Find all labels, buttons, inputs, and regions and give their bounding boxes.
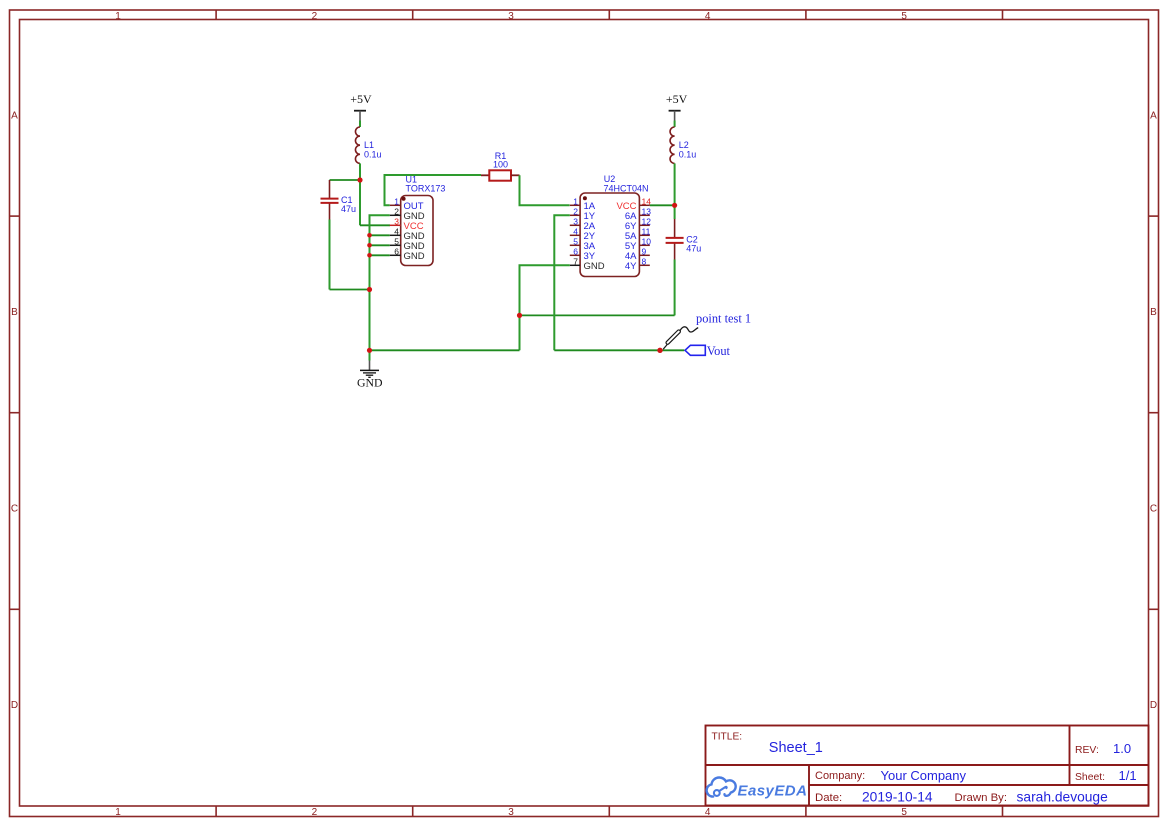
svg-text:Sheet_1: Sheet_1 xyxy=(769,740,823,756)
svg-text:4: 4 xyxy=(573,227,578,237)
svg-text:1: 1 xyxy=(115,11,121,22)
svg-text:0.1u: 0.1u xyxy=(679,150,697,160)
svg-text:5: 5 xyxy=(573,237,578,247)
svg-text:6: 6 xyxy=(394,247,399,257)
svg-text:L2: L2 xyxy=(679,140,689,150)
svg-text:Date:: Date: xyxy=(815,792,842,804)
U1 pin 2 xyxy=(390,207,401,217)
U2 pin 4 xyxy=(570,227,580,237)
svg-text:TITLE:: TITLE: xyxy=(712,732,743,743)
frame row letters left xyxy=(11,111,18,712)
junction node U1 pin6 xyxy=(367,253,372,258)
svg-text:14: 14 xyxy=(642,197,652,207)
svg-text:4Y: 4Y xyxy=(625,261,637,272)
wire U2 pin7 down xyxy=(520,265,570,350)
svg-text:C: C xyxy=(1150,504,1157,515)
net flag Vout xyxy=(685,344,731,358)
svg-text:2: 2 xyxy=(312,11,318,22)
svg-text:8: 8 xyxy=(642,257,647,267)
svg-text:Company:: Company: xyxy=(815,770,865,782)
svg-text:11: 11 xyxy=(642,227,651,237)
svg-text:Your Company: Your Company xyxy=(881,768,967,783)
svg-text:4: 4 xyxy=(705,807,711,818)
wire xyxy=(674,205,676,219)
IC U2 74HCT04N xyxy=(580,193,639,277)
U2 pin 8 xyxy=(639,257,649,267)
svg-text:GND: GND xyxy=(584,261,605,272)
test point probe symbol xyxy=(663,327,698,349)
svg-text:2: 2 xyxy=(573,207,578,217)
U2 pin 13 xyxy=(639,207,651,217)
svg-text:2: 2 xyxy=(312,807,318,818)
frame column numbers top xyxy=(115,11,907,22)
U1 pin 4 xyxy=(390,227,401,237)
U2 pin 9 xyxy=(639,247,649,257)
svg-text:5: 5 xyxy=(901,807,907,818)
U1 pin 6 xyxy=(390,247,401,257)
svg-text:3: 3 xyxy=(508,807,514,818)
svg-text:EasyEDA: EasyEDA xyxy=(738,783,808,800)
svg-text:Vout: Vout xyxy=(707,344,731,358)
svg-text:sarah.devouge: sarah.devouge xyxy=(1017,790,1109,805)
junction node GND rail at ground xyxy=(367,348,372,353)
wire xyxy=(329,220,331,290)
power flag +5V left xyxy=(350,92,372,121)
svg-text:4: 4 xyxy=(394,227,399,237)
junction node C1/GND rail xyxy=(367,287,372,292)
U2 pin 12 xyxy=(639,217,651,227)
svg-text:REV:: REV: xyxy=(1075,745,1099,756)
wire U1 pin2 to GND rail xyxy=(370,215,390,350)
svg-text:13: 13 xyxy=(642,207,652,217)
svg-text:Sheet:: Sheet: xyxy=(1075,772,1105,783)
junction node test point on Vout xyxy=(657,348,662,353)
U2 pin 2 xyxy=(570,207,580,217)
svg-text:5: 5 xyxy=(394,237,399,247)
U2 pin 5 xyxy=(570,237,580,247)
svg-text:Drawn By:: Drawn By: xyxy=(955,792,1008,804)
svg-text:0.1u: 0.1u xyxy=(364,150,382,160)
svg-text:GND: GND xyxy=(404,251,425,262)
junction node +5V/C2/pin14 xyxy=(672,203,677,208)
wire xyxy=(330,179,361,181)
svg-text:D: D xyxy=(1150,700,1157,711)
U2 pin 10 xyxy=(639,237,651,247)
junction node +5V/C1/VCC xyxy=(357,177,362,182)
svg-text:12: 12 xyxy=(642,217,652,227)
svg-text:1: 1 xyxy=(115,807,121,818)
svg-text:C: C xyxy=(11,504,18,515)
ground symbol GND xyxy=(357,350,383,389)
wire U2 pin2 to Vout rail xyxy=(554,215,570,350)
svg-text:10: 10 xyxy=(642,237,652,247)
frame column numbers bottom xyxy=(115,807,907,818)
svg-text:D: D xyxy=(11,700,18,711)
junction node U1 pin5 xyxy=(367,243,372,248)
U2 pin 7 xyxy=(570,257,580,267)
frame row letters right xyxy=(1150,111,1157,712)
svg-text:+5V: +5V xyxy=(350,92,372,106)
svg-text:TORX173: TORX173 xyxy=(406,183,446,193)
capacitor C2 xyxy=(666,219,684,260)
inductor L1 xyxy=(355,127,360,163)
wire U2 pin14 to +5V rail xyxy=(650,204,675,206)
wire R1 to U2 pin1 xyxy=(520,175,570,205)
wire xyxy=(330,289,370,291)
svg-text:74HCT04N: 74HCT04N xyxy=(604,183,649,193)
svg-text:3: 3 xyxy=(508,11,514,22)
resistor R1 xyxy=(481,170,520,180)
U2 pin 6 xyxy=(570,247,580,257)
wire xyxy=(674,121,676,128)
svg-text:7: 7 xyxy=(573,257,578,267)
svg-text:9: 9 xyxy=(642,247,647,257)
svg-text:3: 3 xyxy=(394,217,399,227)
svg-text:100: 100 xyxy=(493,159,508,169)
wire xyxy=(674,260,676,316)
svg-text:47u: 47u xyxy=(341,204,356,214)
wire U1 pin6 stub xyxy=(370,254,390,256)
power flag +5V right xyxy=(666,92,688,121)
svg-text:47u: 47u xyxy=(686,244,701,254)
svg-text:1: 1 xyxy=(394,197,399,207)
wire Vout horizontal xyxy=(554,349,684,351)
svg-text:1.0: 1.0 xyxy=(1113,741,1131,756)
wire C2 to pin7 net xyxy=(520,314,675,316)
svg-text:GND: GND xyxy=(357,376,383,390)
svg-text:B: B xyxy=(1150,307,1157,318)
wire U1 pin5 stub xyxy=(370,244,390,246)
wire xyxy=(360,224,390,226)
U2 pin 1 xyxy=(570,197,580,207)
svg-text:2019-10-14: 2019-10-14 xyxy=(862,790,933,805)
EasyEDA logo xyxy=(707,778,808,800)
capacitor C1 xyxy=(321,180,339,220)
wire U1 pin4 stub xyxy=(370,234,390,236)
svg-text:A: A xyxy=(11,111,18,122)
wire xyxy=(359,121,361,128)
wire xyxy=(674,163,676,205)
svg-text:5: 5 xyxy=(901,11,907,22)
wire VCC branch down to U1 pin3 xyxy=(359,180,361,225)
svg-text:4: 4 xyxy=(705,11,711,22)
svg-text:+5V: +5V xyxy=(666,92,688,106)
U1 pin 3 xyxy=(390,217,401,227)
svg-text:L1: L1 xyxy=(364,140,374,150)
title block xyxy=(706,726,1149,806)
svg-text:1/1: 1/1 xyxy=(1119,768,1137,783)
svg-text:1: 1 xyxy=(573,197,578,207)
wire GND rail horizontal xyxy=(370,349,520,351)
IC U1 TORX173 xyxy=(401,196,433,266)
svg-text:2: 2 xyxy=(394,207,399,217)
wire xyxy=(359,163,361,180)
svg-text:6: 6 xyxy=(573,247,578,257)
svg-text:A: A xyxy=(1150,111,1157,122)
U1 pin 1 xyxy=(390,197,401,207)
svg-text:B: B xyxy=(11,307,18,318)
junction node U1 pin4 xyxy=(367,233,372,238)
wire U1 pin1 to R1 xyxy=(385,175,482,205)
U2 pin 11 xyxy=(639,227,650,237)
svg-text:point test 1: point test 1 xyxy=(696,311,751,325)
inductor L2 xyxy=(670,127,675,163)
svg-text:3: 3 xyxy=(573,217,578,227)
U2 pin 14 xyxy=(639,197,651,207)
U1 pin 5 xyxy=(390,237,401,247)
U2 pin 3 xyxy=(570,217,580,227)
junction node pin7/C2 net xyxy=(517,313,522,318)
